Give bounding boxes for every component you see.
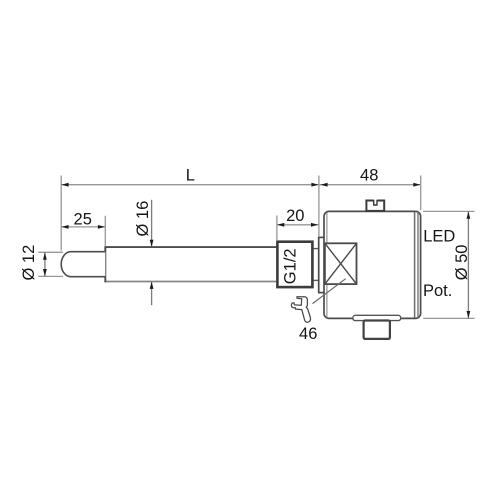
probe tube Ø16 top outline — [105, 246, 277, 248]
dim 48 arrow left — [320, 183, 327, 187]
dim 25 extension right — [104, 216, 106, 246]
dim 48 arrow right — [413, 183, 420, 187]
dim Ø16 upper arrow — [150, 240, 154, 247]
dim Ø16 upper arrow line — [151, 200, 153, 247]
svg-text:48: 48 — [360, 166, 378, 184]
probe tube step edge — [104, 246, 106, 282]
neck segment top (thread to flange) — [312, 248, 319, 250]
dim 25 arrow left — [61, 225, 68, 229]
dim Ø50 extension line bottom — [423, 317, 474, 319]
dim Ø50 line — [467, 211, 469, 318]
svg-text:25: 25 — [74, 211, 92, 229]
dim Ø12 arrow down — [43, 269, 47, 276]
dim 48 extension line left — [318, 176, 320, 238]
svg-text:Pot.: Pot. — [423, 282, 452, 300]
svg-text:20: 20 — [286, 207, 304, 225]
svg-text:LED: LED — [423, 227, 455, 245]
housing body — [324, 211, 421, 318]
dim 20 extension left — [276, 216, 278, 241]
wrench icon — [291, 297, 310, 323]
dim Ø16 lower arrow line — [151, 282, 153, 305]
dim Ø16 lower arrow — [150, 282, 154, 289]
dim 48: line — [319, 184, 421, 186]
dim L arrow right — [311, 183, 318, 187]
svg-text:Ø 12: Ø 12 — [20, 245, 38, 281]
svg-text:46: 46 — [299, 325, 317, 343]
probe tube Ø16 bottom outline — [105, 281, 277, 283]
svg-text:L: L — [186, 167, 195, 185]
dim 48 extension line right — [420, 176, 422, 211]
dim 20 arrow left — [277, 223, 284, 227]
dim 20: line — [277, 224, 319, 226]
svg-text:Ø 16: Ø 16 — [134, 201, 152, 237]
svg-text:Ø 50: Ø 50 — [453, 245, 471, 281]
X-box (process connection symbol) — [325, 243, 357, 284]
dim L: line — [61, 184, 319, 186]
bottom plug — [364, 321, 390, 339]
dim Ø12 arrow up — [43, 253, 47, 260]
housing right seam inner — [417, 212, 419, 318]
dim Ø50 arrow down — [467, 311, 471, 318]
top connector — [366, 199, 384, 211]
thread block G1/2 — [277, 242, 312, 287]
dim L arrow left — [61, 183, 68, 187]
svg-text:G1/2: G1/2 — [282, 248, 300, 284]
probe tip Ø12 stadium — [61, 252, 105, 277]
housing left seam — [326, 213, 328, 318]
flange washer — [319, 237, 325, 292]
bottom collar — [353, 315, 401, 320]
dim L: extension line left — [60, 176, 62, 251]
dim Ø50 extension line top — [423, 210, 474, 212]
dim Ø12 extension line bottom — [38, 275, 63, 277]
dim Ø50 arrow up — [467, 212, 471, 219]
dim 20 arrow right — [311, 223, 318, 227]
housing right seam outer — [414, 212, 416, 318]
dim Ø12 line — [44, 252, 46, 276]
dim 25: line — [61, 226, 105, 228]
neck segment bottom (thread to flange) — [312, 279, 319, 281]
leader line to wrench flat — [313, 279, 346, 304]
dim 25 arrow right — [98, 225, 105, 229]
dim Ø12 extension line top — [38, 251, 63, 253]
